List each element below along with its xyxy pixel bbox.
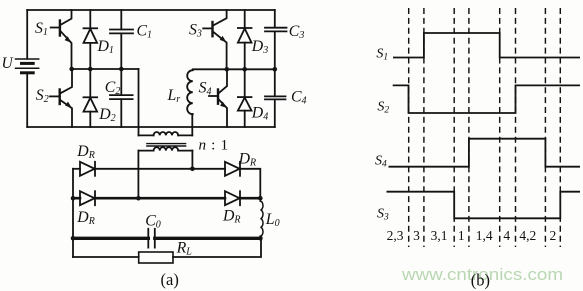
wire rectifier row1: [73, 168, 80, 170]
capacitor C3: [265, 10, 287, 69]
wire secondary right to row1: [191, 151, 193, 169]
capacitor C1: [110, 10, 133, 69]
node S1-S2 junction: [69, 67, 74, 72]
dashed grid line t4: [468, 8, 470, 247]
inductor L0: [260, 198, 263, 238]
waveform S3: [387, 192, 581, 219]
transistor S3: [203, 10, 226, 69]
wire top rail: [27, 9, 275, 11]
dashed grid line t2: [423, 8, 425, 247]
wire bottom rail: [27, 126, 275, 128]
svg-text:C3: C3: [289, 23, 305, 41]
node C3-C4 junction: [273, 67, 278, 72]
battery U: [16, 59, 39, 73]
node bus right: [258, 236, 263, 241]
dashed grid line t8: [559, 8, 561, 247]
svg-text:3,1: 3,1: [431, 228, 448, 243]
resistor RL: [139, 252, 173, 263]
svg-text:DR: DR: [238, 151, 257, 169]
dashed grid line t3: [453, 8, 455, 247]
dashed grid line t1: [408, 8, 410, 247]
svg-text:C4: C4: [291, 89, 307, 107]
dashed grid line t5: [499, 8, 501, 247]
diode D2: [84, 69, 98, 127]
wire mid rail right: [193, 68, 275, 70]
svg-text:4: 4: [503, 228, 510, 243]
node secondary left on row2: [136, 196, 141, 201]
svg-text:C1: C1: [137, 23, 153, 41]
transformer T secondary: [138, 147, 192, 150]
svg-text:S1: S1: [35, 20, 48, 38]
wire output bus left of C0 thick: [73, 237, 148, 240]
transformer T primary: [139, 114, 193, 135]
capacitor C4: [265, 69, 286, 127]
wire left edge from top rail to battery: [26, 10, 28, 59]
transistor S4: [209, 69, 227, 127]
svg-text:1: 1: [458, 228, 465, 243]
svg-text:2: 2: [550, 228, 557, 243]
diode D1: [84, 10, 98, 69]
svg-text:3: 3: [413, 228, 420, 243]
dashed grid line t6: [515, 8, 517, 247]
node secondary right on row1: [190, 167, 195, 172]
wire secondary left to row2: [137, 151, 139, 199]
svg-text:1,4: 1,4: [476, 228, 493, 243]
capacitor C2: [110, 69, 133, 127]
wire RL row right: [173, 238, 261, 257]
rectifier diode DR row2 right: [225, 191, 240, 205]
diode D4: [238, 69, 252, 127]
svg-text:D3: D3: [251, 38, 268, 56]
node D3-D4 junction: [242, 67, 247, 72]
svg-text:D4: D4: [251, 105, 268, 123]
transformer T core: [147, 144, 186, 146]
inductor Lr: [187, 70, 193, 114]
wire mid rail left: [72, 68, 139, 70]
wire battery to bottom rail: [26, 73, 28, 127]
rectifier diode DR row1 left: [80, 162, 95, 176]
svg-text:S2: S2: [377, 100, 389, 116]
rectifier diode DR row1 right: [225, 162, 240, 176]
svg-text:C0: C0: [145, 213, 161, 231]
waveform S1: [393, 33, 580, 58]
dashed grid line t7: [544, 8, 546, 247]
node D1-D2 junction: [88, 67, 93, 72]
svg-text:D2: D2: [98, 106, 115, 124]
diode D3: [238, 10, 252, 69]
wire mid rail left to transformer primary left: [138, 69, 140, 135]
interval numbers row: [387, 228, 557, 243]
svg-text:2,3: 2,3: [387, 228, 404, 243]
svg-text:U: U: [2, 55, 15, 72]
svg-text:S1: S1: [376, 47, 388, 63]
svg-text:(a): (a): [161, 270, 179, 289]
svg-text:DR: DR: [222, 208, 241, 226]
wire rectifier row2 thick: [73, 197, 260, 200]
svg-text:(b): (b): [471, 271, 490, 290]
svg-text:S4: S4: [375, 154, 387, 170]
svg-text:S3: S3: [189, 22, 202, 40]
node row2 right output: [258, 196, 263, 201]
svg-text:S3: S3: [377, 207, 389, 223]
timing diagram (b): [409, 8, 561, 247]
svg-text:n : 1: n : 1: [199, 137, 229, 154]
svg-text:C2: C2: [105, 79, 121, 97]
svg-text:RL: RL: [176, 240, 193, 258]
svg-text:DR: DR: [76, 209, 95, 227]
svg-text:DR: DR: [76, 143, 95, 161]
svg-text:L0: L0: [265, 211, 280, 229]
wire row1 middle: [95, 168, 225, 170]
waveform S4: [389, 139, 581, 167]
node S3-S4 junction: [225, 67, 230, 72]
node bus left: [71, 236, 76, 241]
transistor S2: [50, 69, 72, 127]
node C1-C2 junction: [119, 67, 124, 72]
waveform S2: [393, 85, 580, 113]
node row2 left: [71, 196, 76, 201]
wire row1 right corner down to row2: [240, 169, 260, 198]
transistor S1: [51, 10, 72, 69]
svg-text:D1: D1: [97, 38, 114, 56]
svg-text:S4: S4: [199, 80, 212, 98]
wire output bus right of C0 thick: [155, 237, 261, 240]
wire RL row left: [73, 256, 139, 258]
wire rectifier left edge: [72, 169, 74, 257]
svg-text:Lr: Lr: [167, 87, 181, 105]
capacitor C0: [148, 229, 155, 248]
rectifier diode DR row2 left: [80, 191, 95, 205]
svg-text:4,2: 4,2: [519, 228, 536, 243]
svg-text:S2: S2: [36, 87, 49, 105]
